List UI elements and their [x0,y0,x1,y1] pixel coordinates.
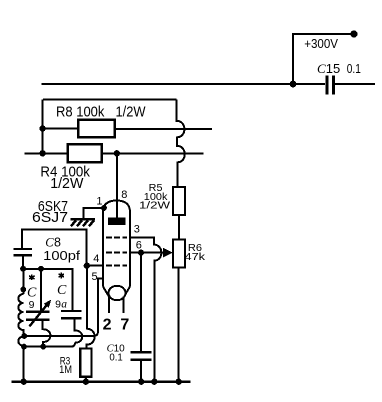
wire C8 to grid rail [22,229,86,265]
label C9a asterisk [59,273,64,279]
svg-text:1M: 1M [59,364,72,376]
capacitor C15 [327,76,334,95]
wire pin4 lead [87,265,103,267]
resistor R5 [173,187,185,215]
wire tank top rail [23,269,73,310]
svg-text:6: 6 [136,240,142,252]
label C9 asterisk [29,275,34,281]
arrowhead of C9 arrow [44,300,52,308]
svg-text:9: 9 [55,298,61,310]
variable capacitor C9 arrow [29,306,46,327]
wire heater lead pin2 [108,296,110,313]
svg-text:6SJ7: 6SJ7 [32,209,68,226]
wire ground bus [12,380,191,383]
tube cathode circle [109,286,126,300]
wire pin3 with hop [130,238,161,382]
ground chassis symbol [71,218,96,221]
svg-text:0.1: 0.1 [347,61,361,76]
svg-text:100pf: 100pf [43,248,80,263]
wire main rail left [24,152,67,154]
wire pin5 to coil tap (wire A) [23,278,103,336]
wire C9a lower lead with hop [75,319,83,342]
node dot coil tap A [21,333,27,339]
node dot pin4 junction [84,263,90,269]
capacitor C9 [26,312,49,320]
wire coil column top [22,269,24,294]
node dot coil top [20,287,26,293]
node dot R8 left [39,125,45,131]
wire grid line with hop to R3 [87,266,95,349]
svg-text:7: 7 [120,316,129,333]
capacitor C10 [131,352,152,360]
node dot bus R3 [83,379,89,385]
node dot bus C10 [138,379,144,385]
node dot +300V junction [290,81,297,88]
node dot pin1 [101,205,107,211]
svg-text:+300V: +300V [304,36,338,51]
svg-text:0.1: 0.1 [109,353,123,364]
wire C9 top feed [40,269,42,311]
svg-text:3: 3 [134,224,140,236]
tube plate (filled) [108,218,126,225]
wire left vertical junction [42,100,44,154]
wire R8 right lead [115,128,212,130]
node dot plate junction [114,150,120,156]
wire C10 branch [140,253,142,352]
svg-text:C: C [57,283,67,298]
wire R8 top rail [43,99,177,101]
wiper arrow into R6 [163,248,173,258]
wire top B+ rail [42,83,326,85]
capacitor C8 [14,249,33,255]
wire heater lead pin7 [123,297,125,314]
wire R5 feed with hops [177,100,185,188]
wire +300V branch [293,34,354,84]
potentiometer R6 [173,240,185,268]
svg-text:15: 15 [326,61,340,76]
svg-text:1: 1 [96,196,102,208]
inductor L1 coil [18,294,23,347]
node dot C9 bottom C [40,344,46,350]
node dot pin6 junction [138,250,144,256]
resistor R4 [68,144,102,162]
svg-text:2: 2 [103,316,112,333]
resistor R8 [78,120,115,137]
svg-text:R8 100k: R8 100k [56,104,105,121]
wire R3 bottom [85,377,87,382]
svg-text:1/2W: 1/2W [139,200,171,211]
svg-text:9: 9 [29,299,35,311]
svg-text:5: 5 [92,271,98,283]
wire pin1 to ground [84,208,105,219]
wire pin8 plate lead [116,153,118,218]
node dot bus pin3 [151,379,157,385]
svg-text:8: 8 [121,189,127,201]
node dot C8 bottom [20,266,26,272]
capacitor C9a [61,311,81,318]
node dot coil bottom B [21,344,27,350]
wire pin6 lead [130,252,163,254]
svg-text:C: C [317,61,326,76]
node dot C9 top [38,266,44,272]
svg-text:1/2W: 1/2W [50,175,84,192]
tube grid dashed rows [106,238,127,266]
node dot R4 left [39,150,45,156]
svg-text:47k: 47k [185,252,207,263]
wire C9 lower lead with hop [43,321,51,347]
wire R5-R6 link [178,215,180,240]
svg-text:a: a [61,298,67,310]
svg-text:4: 4 [93,253,99,265]
wire tank bottom (wire B) [23,343,75,347]
svg-text:1/2W: 1/2W [116,104,147,121]
wire C10 bottom [140,361,142,382]
wire R6 bottom [178,268,180,382]
wire C8 bottom lead [22,256,24,268]
node dot +300V terminal [350,30,357,37]
resistor R3 [80,349,91,377]
wire R4 right lead [102,152,204,154]
wire R8 left lead [43,128,78,130]
wire coil bottom to bus [22,347,24,382]
tube bottom chamfers [103,287,130,298]
node dot bus R6 [176,379,182,385]
wire C15 right lead [335,83,375,85]
tube V1 envelope [103,201,130,287]
node dot bus coil [21,379,27,385]
